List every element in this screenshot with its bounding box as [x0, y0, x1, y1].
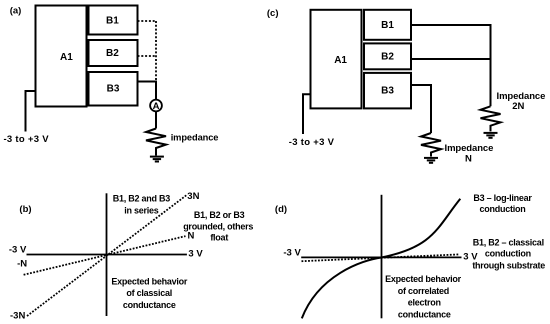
- box B2 (panel a): [89, 40, 138, 66]
- dotted line B1 B2 classical conduction (panel d): [302, 254, 460, 261]
- svg-text:of classical: of classical: [126, 288, 172, 298]
- wire from B3 to ammeter (panel a): [138, 82, 157, 100]
- svg-text:N: N: [465, 153, 472, 164]
- svg-text:-3 to +3 V: -3 to +3 V: [289, 137, 335, 148]
- box B3 (panel a): [89, 72, 138, 106]
- svg-text:-3 V: -3 V: [283, 248, 301, 259]
- wire from B3 to impedance N (panel c): [412, 85, 432, 133]
- svg-text:B2: B2: [381, 52, 394, 63]
- annotation B1 B2 classical conduction through substrate (panel d): [472, 238, 545, 271]
- svg-text:Expected behavior: Expected behavior: [111, 276, 188, 286]
- wire ammeter to resistor (panel a): [155, 111, 157, 128]
- svg-text:B1: B1: [106, 15, 119, 26]
- dotted wire from B1 (panel a): [138, 20, 157, 22]
- svg-text:grounded, others: grounded, others: [183, 221, 253, 231]
- svg-text:Expected behavior: Expected behavior: [385, 274, 462, 284]
- svg-text:B1, B2 or B3: B1, B2 or B3: [194, 210, 245, 220]
- svg-text:B3: B3: [107, 84, 120, 95]
- ground (panel a): [150, 157, 164, 162]
- svg-text:(b): (b): [19, 204, 31, 215]
- svg-text:B3 – log-linear: B3 – log-linear: [473, 193, 532, 203]
- svg-text:B3: B3: [381, 85, 394, 96]
- svg-text:(d): (d): [275, 204, 287, 215]
- ammeter A (panel a): [150, 100, 162, 112]
- svg-text:3 V: 3 V: [188, 248, 203, 259]
- svg-text:-3 V: -3 V: [9, 245, 27, 256]
- box B1 (panel a): [89, 6, 138, 35]
- box B3 (panel c): [364, 73, 411, 109]
- curve B3 log-linear conduction (panel d): [302, 199, 461, 319]
- svg-text:B1, B2 and B3: B1, B2 and B3: [113, 193, 171, 203]
- svg-text:3N: 3N: [187, 191, 199, 202]
- svg-text:conduction: conduction: [485, 249, 531, 259]
- svg-text:conductance: conductance: [398, 309, 451, 319]
- svg-text:of correlated: of correlated: [398, 286, 449, 296]
- box B2 (panel c): [364, 43, 411, 69]
- svg-text:-3N: -3N: [10, 310, 25, 321]
- svg-text:float: float: [210, 233, 228, 243]
- wire from B2 (panel c): [412, 58, 491, 60]
- impedance 2N label (panel c): [497, 91, 546, 112]
- dotted vertical wire (panel a): [155, 21, 157, 82]
- svg-text:B2: B2: [106, 48, 119, 59]
- svg-text:(c): (c): [267, 8, 279, 19]
- svg-text:N: N: [188, 230, 195, 241]
- svg-text:A: A: [153, 101, 160, 112]
- y axis (panel b): [106, 193, 108, 316]
- svg-text:(a): (a): [10, 6, 22, 17]
- annotation expected classical conductance (panel b): [111, 276, 188, 310]
- resistor impedance N (panel c): [421, 133, 441, 157]
- dashed line B1 B2 B3 in series (panel b): [27, 195, 187, 316]
- dashed line grounded others float (panel b): [24, 236, 186, 275]
- svg-text:electron: electron: [408, 298, 441, 308]
- ground of impedance N (panel c): [424, 158, 438, 163]
- y axis (panel d): [381, 195, 383, 318]
- svg-text:impedance: impedance: [171, 132, 219, 142]
- annotation B3 log-linear conduction (panel d): [473, 193, 532, 214]
- wire voltage source to A1 (panel c): [303, 94, 311, 134]
- box A1 (panel c): [311, 10, 362, 109]
- svg-text:A1: A1: [334, 55, 347, 66]
- svg-text:2N: 2N: [512, 101, 524, 112]
- wire from B1 to impedance 2N (panel c): [412, 25, 491, 106]
- svg-text:-3 to +3 V: -3 to +3 V: [3, 134, 49, 145]
- svg-text:conduction: conduction: [480, 204, 526, 214]
- ground of impedance 2N (panel c): [484, 133, 498, 138]
- wire voltage source to A1 (panel a): [26, 91, 36, 132]
- annotation expected correlated electron conductance (panel d): [385, 274, 462, 319]
- x axis (panel b): [27, 254, 187, 256]
- box B1 (panel c): [364, 10, 411, 40]
- impedance N label (panel c): [445, 143, 494, 164]
- resistor impedance 2N (panel c): [481, 106, 501, 131]
- svg-text:B1, B2 – classical: B1, B2 – classical: [473, 238, 544, 248]
- box A1 (panel a): [36, 6, 87, 107]
- svg-text:-N: -N: [17, 259, 27, 270]
- svg-text:B1: B1: [381, 20, 394, 31]
- x axis (panel d): [301, 256, 461, 258]
- resistor impedance (panel a): [146, 129, 166, 156]
- annotation B1 B2 and B3 in series (panel b): [113, 193, 171, 215]
- svg-text:conductance: conductance: [123, 300, 176, 310]
- svg-text:A1: A1: [60, 52, 73, 63]
- annotation B1 B2 or B3 grounded others float (panel b): [183, 210, 253, 243]
- svg-text:through substrate: through substrate: [472, 261, 545, 271]
- svg-text:in series: in series: [124, 205, 159, 215]
- dotted wire from B2 (panel a): [138, 55, 157, 57]
